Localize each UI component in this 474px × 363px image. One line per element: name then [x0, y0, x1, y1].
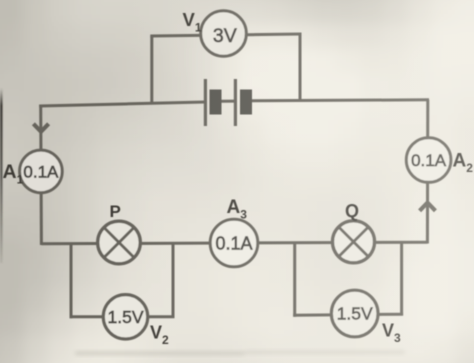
voltmeter V2 body: [103, 295, 147, 339]
wire V2 loop bottom horizontal: [70, 315, 175, 318]
ammeter A3 body: [210, 219, 258, 267]
wire bottom horizontal: [41, 242, 427, 244]
battery cell 2 short thick plate: [240, 90, 252, 115]
ammeter A2 body: [406, 138, 451, 183]
lamp P cross stroke 2: [104, 228, 134, 258]
lamp P cross stroke 1: [104, 228, 134, 258]
current arrow down on left wire: [33, 124, 48, 132]
battery cell 1 short thick plate: [210, 90, 222, 115]
wire V3 loop left vertical: [293, 243, 296, 317]
wire V3 loop bottom horizontal: [293, 314, 403, 315]
battery cell 2 long plate: [234, 79, 237, 126]
voltmeter V3 body: [331, 290, 378, 337]
wire top-left segment to battery: [39, 102, 205, 106]
current arrow up on right wire: [420, 203, 436, 211]
wire battery to top-right corner: [252, 100, 429, 101]
voltmeter V1 body: [201, 11, 247, 57]
lamp Q cross stroke 2: [339, 227, 369, 257]
wire V1 loop left vertical: [150, 36, 153, 104]
lamp Q body: [333, 221, 375, 263]
wire V2 loop left vertical: [70, 244, 73, 319]
lamp Q cross stroke 1: [339, 227, 369, 257]
wire left vertical: [39, 105, 43, 246]
wire stub between battery cells: [222, 100, 236, 103]
lamp P body: [98, 221, 141, 264]
battery cell 1 long plate: [204, 79, 207, 126]
wire V3 loop right vertical: [400, 243, 403, 316]
wire right vertical: [426, 100, 429, 244]
ammeter A1 body: [20, 150, 63, 193]
wire V1 loop top horizontal: [150, 34, 301, 36]
wire V2 loop right vertical: [172, 243, 175, 317]
wire V1 loop right vertical: [299, 34, 302, 101]
